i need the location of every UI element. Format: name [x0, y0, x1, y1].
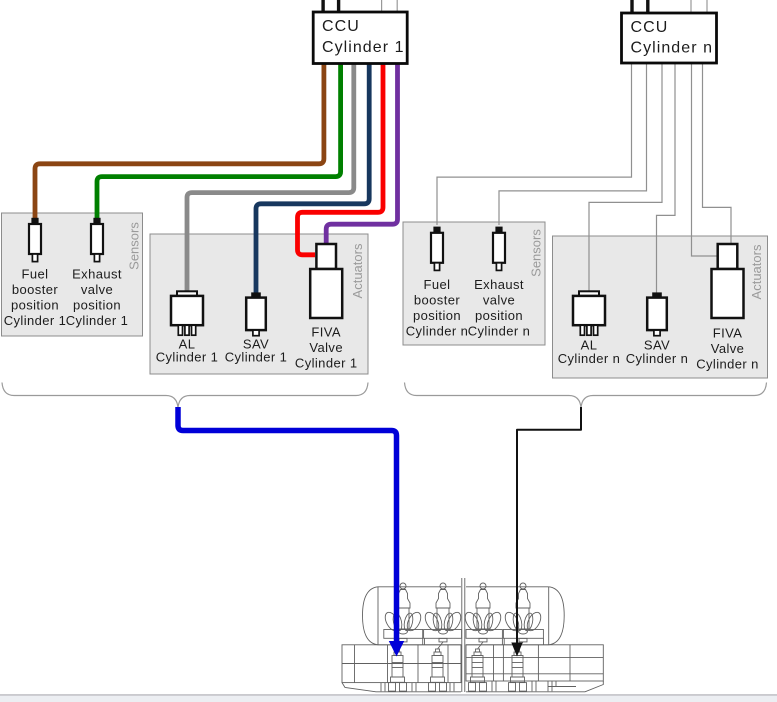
sensor fuel booster position cylinder 1: [29, 218, 41, 262]
engine tank left half: [363, 587, 379, 645]
actuator FIVA valve cylinder 1: [310, 244, 342, 318]
actuator AL cylinder 1: [171, 291, 203, 335]
svg-text:Cylinder 1: Cylinder 1: [322, 39, 405, 56]
svg-text:booster: booster: [414, 293, 460, 308]
wire brown CCU1 to fuel booster sensor 1: [35, 63, 324, 221]
svg-text:Cylinder n: Cylinder n: [468, 324, 531, 339]
engine bottom feet strokes left: [380, 683, 382, 692]
engine injector 1: [382, 583, 423, 642]
sensor fuel booster position cylinder n: [431, 227, 443, 271]
svg-text:position: position: [413, 308, 461, 323]
svg-text:Cylinder n: Cylinder n: [558, 351, 621, 366]
svg-text:valve: valve: [483, 293, 515, 308]
svg-text:CCU: CCU: [631, 19, 669, 36]
wire network stub black A above CCUn: [630, 0, 633, 14]
actuator AL cylinder n: [573, 291, 605, 335]
engine pump jack 2: [429, 649, 447, 691]
engine lower frame left: [342, 645, 461, 683]
CCU cylinder n controller box: [622, 13, 717, 63]
svg-text:Actuators: Actuators: [350, 243, 365, 298]
engine injector 4: [502, 583, 543, 642]
wire gray CCUn to fuel booster sensor n: [437, 63, 632, 225]
svg-text:booster: booster: [12, 282, 58, 297]
svg-text:Cylinder 1: Cylinder 1: [66, 313, 129, 328]
engine rail segments: [384, 630, 423, 639]
actuators box cylinder 1: [150, 234, 368, 374]
engine tank right half: [549, 587, 565, 645]
svg-text:Cylinder n: Cylinder n: [406, 324, 469, 339]
engine bottom feet strokes right: [491, 681, 493, 691]
sensor exhaust valve position cylinder 1: [91, 218, 103, 262]
svg-text:Cylinder 1: Cylinder 1: [156, 350, 219, 365]
arrowhead blue: [389, 641, 404, 657]
brace group cylinder 1: [2, 383, 368, 409]
engine pump jack 1: [389, 649, 407, 691]
engine bottom right hull: [466, 681, 603, 692]
sensors box cylinder 1: [2, 213, 143, 336]
svg-text:Actuators: Actuators: [749, 244, 764, 299]
wire network stub black A above CCU1: [321, 0, 324, 13]
wire gray CCU1 to AL cylinder 1: [187, 63, 354, 293]
wire red CCU1 to FIVA valve 1 side: [298, 63, 384, 255]
wire navy CCU1 to SAV cylinder 1: [256, 63, 369, 295]
engine injector 3: [462, 583, 503, 642]
wire green CCU1 to exhaust valve sensor 1: [97, 63, 341, 221]
svg-text:Fuel: Fuel: [22, 267, 49, 282]
bottom window edge strip: [0, 694, 777, 695]
wire network stub gray B above CCUn: [706, 0, 708, 14]
wire gray CCUn to FIVA valve n side: [692, 63, 717, 256]
svg-text:Sensors: Sensors: [127, 222, 142, 270]
svg-text:Cylinder 1: Cylinder 1: [295, 356, 358, 371]
wire purple CCU1 to FIVA valve 1 top: [326, 63, 397, 243]
brace group cylinder n: [405, 383, 767, 409]
cable black group n to engine: [517, 407, 581, 643]
actuator SAV cylinder n: [647, 292, 667, 335]
svg-text:Exhaust: Exhaust: [474, 277, 524, 292]
svg-text:Sensors: Sensors: [529, 229, 544, 277]
svg-text:FIVA: FIVA: [311, 325, 341, 340]
svg-text:position: position: [475, 308, 523, 323]
svg-text:Valve: Valve: [711, 341, 745, 356]
svg-text:Cylinder n: Cylinder n: [626, 351, 689, 366]
actuators box cylinder n: [553, 236, 768, 378]
svg-text:Cylinder 1: Cylinder 1: [225, 350, 288, 365]
svg-text:Valve: Valve: [309, 340, 343, 355]
actuator SAV cylinder 1: [246, 292, 266, 335]
engine pump jack 4: [509, 649, 527, 691]
svg-text:FIVA: FIVA: [713, 326, 743, 341]
svg-text:Cylinder n: Cylinder n: [631, 40, 714, 57]
engine injector 2: [422, 583, 463, 642]
engine line drawing: [342, 578, 603, 692]
svg-text:Exhaust: Exhaust: [72, 267, 122, 282]
wire gray CCUn to SAV cylinder n: [657, 63, 676, 293]
svg-text:Cylinder n: Cylinder n: [696, 357, 759, 372]
wire network stub gray B above CCU1: [396, 0, 398, 13]
wire gray CCUn to AL cylinder n: [589, 63, 662, 292]
arrowhead black: [511, 643, 522, 657]
svg-text:valve: valve: [81, 282, 113, 297]
wire network stub gray A above CCU1: [381, 0, 383, 13]
wire network stub gray A above CCUn: [690, 0, 692, 14]
wire network stub black B above CCUn: [646, 0, 649, 14]
svg-text:Fuel: Fuel: [424, 277, 451, 292]
svg-text:Cylinder 1: Cylinder 1: [4, 313, 67, 328]
cable blue group 1 to engine: [178, 407, 397, 642]
engine pump jack 3: [469, 649, 487, 691]
svg-text:position: position: [11, 298, 59, 313]
engine rail support verticals: [422, 638, 424, 645]
svg-text:position: position: [73, 298, 121, 313]
wire gray CCUn to exhaust valve sensor n: [499, 63, 647, 225]
engine bottom left hull: [342, 683, 461, 692]
actuator FIVA valve cylinder n: [712, 244, 744, 318]
sensor exhaust valve position cylinder n: [493, 227, 505, 271]
wire network stub black B above CCU1: [337, 0, 340, 13]
engine connector rods: [398, 642, 404, 649]
sensors box cylinder n: [403, 222, 545, 345]
svg-text:CCU: CCU: [322, 18, 360, 35]
wire gray CCUn to FIVA valve n top: [703, 63, 732, 243]
CCU cylinder 1 controller box: [313, 12, 407, 64]
engine centre divider: [461, 578, 463, 692]
engine lower frame right: [466, 645, 603, 681]
